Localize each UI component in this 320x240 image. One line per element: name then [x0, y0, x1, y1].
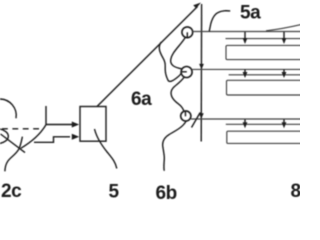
svg-text:6a: 6a — [131, 89, 152, 110]
svg-text:8: 8 — [291, 181, 301, 200]
svg-text:5: 5 — [109, 182, 120, 201]
svg-text:2c: 2c — [1, 181, 22, 200]
svg-text:5a: 5a — [240, 2, 261, 23]
svg-text:6b: 6b — [156, 183, 177, 200]
